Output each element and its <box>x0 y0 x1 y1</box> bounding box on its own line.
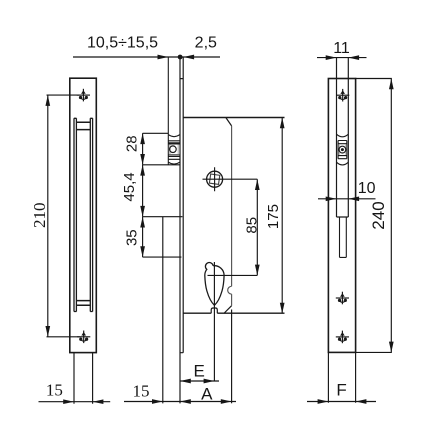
left plate slot bottom bars <box>77 301 91 306</box>
dimension 240 <box>390 79 392 353</box>
dimension 15 left <box>39 353 111 404</box>
svg-text:10,5÷15,5: 10,5÷15,5 <box>87 35 158 52</box>
screw hole left top <box>77 89 90 102</box>
dimension E <box>180 380 220 382</box>
dimension 45,4 <box>143 165 183 217</box>
left plate slot rails <box>74 118 93 311</box>
svg-text:28: 28 <box>123 135 140 152</box>
narrow slot <box>340 217 347 257</box>
svg-text:F: F <box>336 381 346 400</box>
faceplate strip side view <box>180 57 183 403</box>
svg-text:11: 11 <box>333 40 350 57</box>
dimension 85 <box>208 179 258 275</box>
dimension A and middle 15 <box>124 401 236 403</box>
svg-text:10: 10 <box>358 180 376 197</box>
dimension 10 <box>318 198 376 200</box>
right plate inner channel lines <box>337 58 349 217</box>
screw hole right bottom <box>336 331 349 344</box>
dimension 11 <box>317 57 367 59</box>
dimension 35 <box>143 217 182 257</box>
A extension line right <box>231 310 233 404</box>
dimension 175 <box>281 118 283 314</box>
screw hole left bottom <box>77 331 90 344</box>
svg-text:175: 175 <box>265 204 282 229</box>
follower square spindle hole <box>207 171 223 187</box>
svg-text:240: 240 <box>369 201 388 229</box>
latch bolt detail (middle view) <box>168 135 179 164</box>
svg-text:210: 210 <box>30 202 49 228</box>
svg-text:15: 15 <box>46 380 63 399</box>
right plate outline <box>328 79 355 353</box>
case right edge with cam bump <box>228 126 232 306</box>
top dimension line 10,5-15,5 and 2,5 <box>73 56 220 58</box>
dimension 28 <box>143 133 180 165</box>
latch bolt front view (right plate) <box>337 134 349 165</box>
latch extension / latch left side <box>167 57 169 165</box>
screw hole right middle <box>336 292 349 305</box>
dimension dot <box>178 55 183 60</box>
case chamfers <box>224 118 232 314</box>
svg-text:85: 85 <box>243 217 260 234</box>
lock case top edge <box>183 117 284 119</box>
cylinder bottom fixing arch <box>211 308 217 313</box>
left plate outline <box>70 78 97 352</box>
euro cylinder profile <box>205 263 224 306</box>
svg-text:2,5: 2,5 <box>195 35 217 52</box>
svg-text:15: 15 <box>133 382 150 401</box>
cylinder centre line / E extension <box>213 262 215 381</box>
svg-text:E: E <box>194 362 205 381</box>
svg-text:A: A <box>201 384 213 403</box>
right plate top/bottom extension to 240 <box>356 79 392 353</box>
svg-text:35: 35 <box>123 229 140 246</box>
svg-text:45,4: 45,4 <box>121 172 138 201</box>
left plate slot top bars <box>77 122 91 129</box>
extension line to bottom dims <box>162 217 164 404</box>
dimension F <box>307 352 376 402</box>
screw hole right top <box>336 89 349 102</box>
dimension 210 <box>47 95 80 337</box>
lock case bottom edge <box>183 312 284 314</box>
